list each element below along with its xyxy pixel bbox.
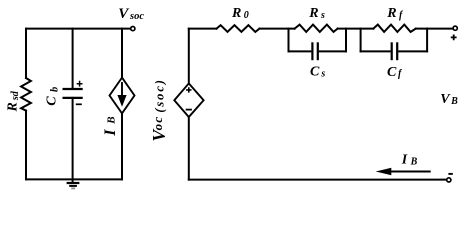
wire RC2 bottom left segment [361, 50, 390, 52]
terminal plus sign [451, 35, 457, 41]
svg-text:Rsd: Rsd [6, 90, 21, 112]
voltage source Voc diamond [174, 83, 203, 117]
wire node1 left vertical of RC1 [288, 29, 290, 52]
wire node2 segment [338, 28, 374, 30]
wire left-circuit left edge upper [25, 29, 27, 78]
svg-text:Voc(soc): Voc(soc) [149, 78, 169, 141]
resistor R_f [373, 25, 416, 32]
capacitor C_b bottom plate [64, 97, 82, 99]
svg-text:Cf: Cf [387, 65, 403, 80]
wire right-circuit left edge upper [188, 29, 190, 84]
svg-text:IB: IB [102, 116, 119, 136]
wire left-circuit left edge lower [25, 111, 27, 180]
capacitor C_b plus sign [77, 81, 83, 87]
resistor R_s [295, 25, 338, 32]
current source I_B diamond [110, 78, 135, 114]
svg-text:Rs: Rs [308, 6, 325, 21]
wire RC1 bottom right segment [320, 50, 346, 52]
svg-text:Vsoc: Vsoc [118, 6, 144, 22]
svg-text:Cb: Cb [44, 87, 60, 106]
wire RC2 left vertical [360, 29, 362, 52]
svg-text:Cs: Cs [310, 65, 325, 80]
wire right-circuit left edge lower [188, 117, 190, 180]
wire current arrow shaft [391, 171, 430, 173]
voltage source plus sign [186, 87, 191, 92]
wire RC2 right vertical [426, 29, 428, 52]
wire RC1 bottom left segment [289, 50, 311, 52]
current arrow head I_B [376, 168, 392, 176]
wire current-source branch lower [121, 113, 123, 179]
node minus terminal circle [447, 178, 451, 182]
capacitor C_f right plate [396, 43, 398, 59]
wire top rail to R0 [189, 28, 217, 30]
svg-text:VB: VB [440, 92, 458, 107]
node plus terminal circle [453, 26, 457, 30]
svg-text:Rf: Rf [386, 6, 404, 21]
node V_soc terminal circle [131, 27, 135, 31]
wire R_f to plus terminal [416, 28, 453, 30]
capacitor C_s right plate [317, 43, 319, 59]
wire RC2 bottom right segment [399, 50, 427, 52]
resistor R_sd [21, 78, 31, 111]
ground [67, 179, 80, 188]
wire capacitor branch upper [72, 29, 74, 89]
capacitor C_b minus sign [76, 103, 82, 105]
current source arrow shaft [121, 82, 123, 96]
wire left-circuit bottom rail [26, 178, 122, 180]
current source arrowhead [117, 95, 126, 107]
svg-text:IB: IB [401, 153, 418, 168]
capacitor C_b top plate [64, 88, 82, 90]
resistor R0 [217, 25, 260, 32]
wire right-circuit bottom rail [189, 179, 447, 181]
svg-text:R0: R0 [231, 6, 249, 21]
capacitor C_s left plate [311, 43, 313, 59]
wire R0 to node1 [260, 28, 295, 30]
wire RC1 right vertical [345, 29, 347, 52]
terminal minus sign [448, 173, 452, 175]
wire left-circuit top rail [26, 28, 131, 30]
wire capacitor branch lower [72, 98, 74, 179]
wire current-source branch upper [121, 29, 123, 78]
capacitor C_f left plate [391, 43, 393, 59]
voltage source minus sign [186, 109, 192, 111]
